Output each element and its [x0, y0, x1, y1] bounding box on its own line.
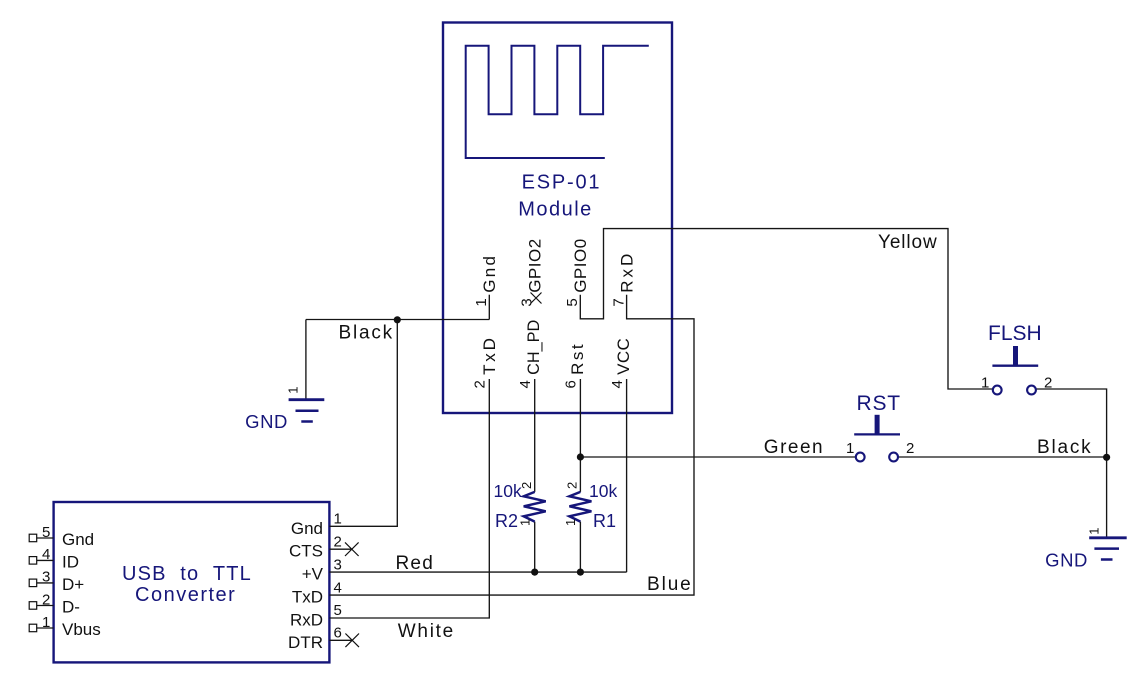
- svg-text:3: 3: [334, 556, 342, 573]
- svg-text:1: 1: [518, 519, 533, 526]
- svg-text:3: 3: [519, 298, 536, 306]
- svg-text:1: 1: [42, 614, 50, 631]
- svg-text:4: 4: [517, 380, 534, 388]
- svg-text:Gnd: Gnd: [62, 530, 94, 549]
- svg-text:6: 6: [562, 380, 579, 388]
- svg-text:1: 1: [286, 387, 301, 394]
- svg-text:4: 4: [42, 546, 50, 563]
- svg-text:4: 4: [334, 579, 342, 596]
- svg-text:DTR: DTR: [288, 633, 323, 652]
- svg-text:1: 1: [1087, 528, 1102, 535]
- svg-text:White: White: [398, 621, 455, 642]
- svg-text:1: 1: [473, 298, 490, 306]
- svg-text:2: 2: [565, 482, 580, 489]
- svg-text:ID: ID: [62, 552, 79, 571]
- svg-text:10k: 10k: [589, 481, 617, 501]
- svg-text:TxD: TxD: [292, 588, 323, 607]
- svg-text:GPIO0: GPIO0: [571, 238, 590, 292]
- svg-text:2: 2: [519, 482, 534, 489]
- svg-text:R1: R1: [593, 511, 616, 531]
- svg-text:ESP-01: ESP-01: [522, 172, 602, 194]
- svg-text:2: 2: [42, 591, 50, 608]
- svg-text:2: 2: [1044, 375, 1052, 392]
- svg-text:USB to TTL: USB to TTL: [122, 563, 252, 585]
- svg-text:2: 2: [334, 533, 342, 550]
- svg-text:1: 1: [334, 511, 342, 528]
- svg-text:RST: RST: [857, 392, 901, 415]
- svg-text:VCC: VCC: [614, 338, 633, 375]
- svg-text:6: 6: [334, 625, 342, 642]
- svg-text:GPIO2: GPIO2: [526, 238, 545, 292]
- svg-text:5: 5: [334, 602, 342, 619]
- svg-text:Black: Black: [1037, 437, 1092, 458]
- svg-text:Vbus: Vbus: [62, 620, 101, 639]
- svg-text:CH_PD: CH_PD: [525, 320, 543, 375]
- svg-text:RxD: RxD: [618, 251, 637, 293]
- svg-text:Gnd: Gnd: [480, 254, 499, 293]
- svg-text:1: 1: [981, 375, 989, 392]
- svg-text:Yellow: Yellow: [878, 232, 938, 253]
- svg-text:GND: GND: [1045, 550, 1088, 571]
- svg-text:Blue: Blue: [647, 574, 693, 595]
- svg-text:TxD: TxD: [480, 335, 499, 375]
- svg-text:RxD: RxD: [290, 611, 323, 630]
- svg-text:Black: Black: [339, 322, 394, 343]
- svg-text:Gnd: Gnd: [291, 519, 323, 538]
- svg-text:D+: D+: [62, 575, 84, 594]
- svg-text:GND: GND: [245, 411, 288, 432]
- svg-text:CTS: CTS: [289, 542, 323, 561]
- svg-text:Module: Module: [518, 199, 593, 221]
- svg-text:D-: D-: [62, 598, 80, 617]
- svg-text:4: 4: [609, 380, 626, 388]
- svg-text:2: 2: [471, 380, 488, 388]
- svg-text:5: 5: [42, 524, 50, 541]
- svg-text:10k: 10k: [494, 481, 522, 501]
- svg-text:1: 1: [846, 440, 854, 457]
- svg-text:7: 7: [611, 298, 628, 306]
- svg-text:5: 5: [564, 298, 581, 306]
- svg-text:Converter: Converter: [135, 584, 236, 606]
- svg-text:1: 1: [563, 519, 578, 526]
- svg-text:+V: +V: [302, 565, 324, 584]
- svg-text:3: 3: [42, 569, 50, 586]
- svg-text:Red: Red: [396, 553, 434, 574]
- svg-text:Green: Green: [764, 437, 824, 458]
- svg-text:R2: R2: [495, 511, 518, 531]
- svg-text:Rst: Rst: [568, 342, 587, 375]
- svg-text:2: 2: [906, 440, 914, 457]
- svg-text:FLSH: FLSH: [988, 322, 1042, 345]
